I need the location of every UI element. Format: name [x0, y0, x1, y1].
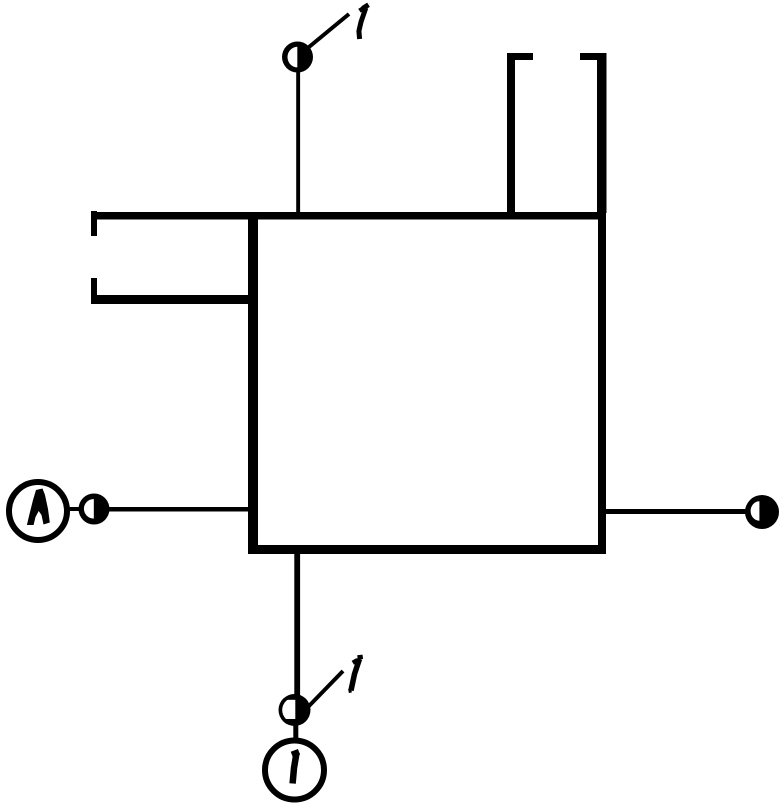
node: bottom port ball: [279, 694, 311, 726]
node: top port ball: [282, 42, 313, 73]
wire: bottom port line: [294, 554, 300, 696]
wire: right port line: [606, 509, 746, 514]
top-right chamber right wall upper segment: [597, 53, 607, 213]
label 1 inside port circle: [292, 752, 299, 784]
valve body right edge (continuous with top-right chamber right wall): [598, 53, 606, 554]
top-right chamber left wall: [507, 53, 515, 212]
top-right chamber right hook: [580, 53, 606, 60]
port circle 1: [265, 741, 324, 800]
gauge A circle: [9, 482, 67, 540]
leader line to top label 1: [309, 14, 349, 47]
label 1 (bottom): [349, 657, 363, 691]
node: left port ball: [79, 494, 110, 525]
wire: top port line: [296, 70, 300, 212]
wire: stub between gauge A and left ball: [68, 507, 80, 511]
left chamber left wall upper segment: [91, 211, 97, 236]
label 1 (top): [359, 5, 369, 39]
node: right port ball: [745, 495, 779, 529]
wire: stub between bottom ball and port circle 1: [293, 725, 298, 739]
left chamber bottom edge: [91, 295, 254, 304]
wire: top horizontal edge (valve body top + left chamber top): [91, 212, 606, 220]
label A inside gauge: [27, 489, 50, 526]
leader line to bottom label 1: [308, 671, 343, 707]
left chamber left wall lower segment: [91, 278, 97, 303]
valve body bottom edge: [248, 545, 606, 554]
valve body left edge: [248, 212, 258, 553]
wire: left port line A: [109, 507, 248, 512]
top-right chamber left hook: [507, 53, 533, 60]
